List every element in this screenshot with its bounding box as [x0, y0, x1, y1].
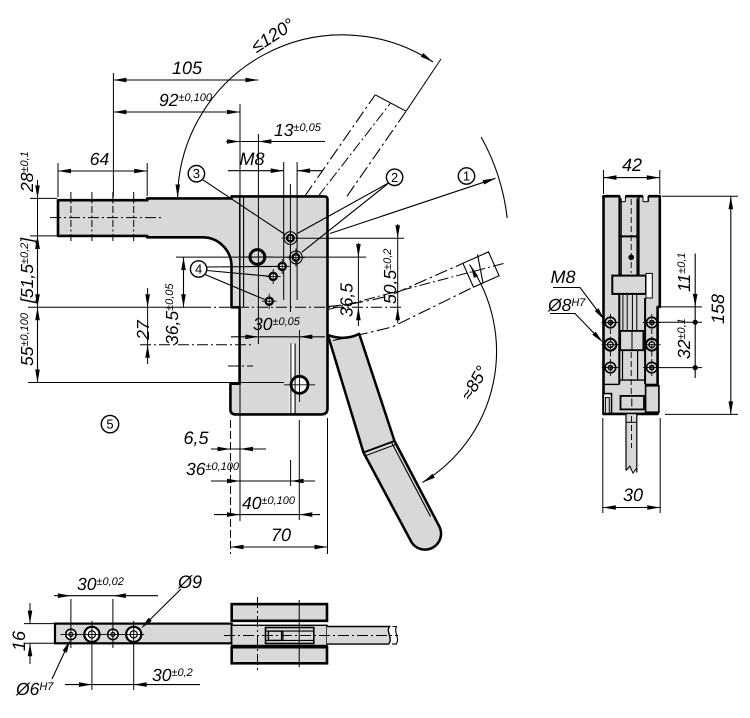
dimension 30 +-0,05: [231, 336, 325, 338]
svg-text:3: 3: [193, 166, 200, 181]
side view top notches (open slots): [620, 193, 626, 201]
bottom view bottom flange: [232, 647, 327, 663]
ext arm bottom y=235.9: [30, 235, 57, 237]
right wall notch at nut: [646, 273, 652, 298]
ext below block for 40: [298, 420, 300, 520]
item circle 3: [188, 166, 204, 182]
bottom view slot pocket: [266, 628, 314, 644]
svg-text:64: 64: [90, 149, 110, 169]
dimension 28 +-0,1 (left, vertical): [37, 180, 39, 254]
dimension 92 +-0,100: [113, 111, 240, 113]
swing radius arc (upper mount): [481, 137, 507, 218]
clamping lever (solid position, grey): [328, 334, 441, 550]
side hole axis y=366: [228, 365, 253, 367]
dimension 11 +-0,1: [661, 306, 702, 308]
swing angle arc 120deg: [178, 35, 433, 198]
pin break squiggle: [626, 466, 637, 473]
side hole axis y=344.7: [140, 344, 253, 346]
item circle 5: [101, 415, 118, 432]
svg-text:M8: M8: [239, 149, 264, 169]
bottom-left foot notch: [603, 394, 611, 414]
arm hole axis x=91.9: [91, 192, 93, 244]
dimension 36 +-0,100: [211, 480, 315, 482]
lever grip inner highlight line: [392, 443, 431, 517]
locating hole B: [270, 273, 277, 280]
svg-text:M8: M8: [550, 267, 575, 287]
svg-text:1: 1: [463, 169, 470, 184]
bottom view lever bar right extension with break: [327, 627, 390, 645]
strip holes H1-H4: [66, 629, 76, 639]
ext line y=382.3 (55 bottom / bottom hole center): [28, 382, 284, 384]
dimension 55 +-0,100 vertical: [37, 307, 39, 382]
counterbore hole (big circle): [250, 250, 265, 265]
arm hole axis x=70.9: [70, 192, 72, 244]
svg-text:30: 30: [623, 485, 643, 505]
ext below block for 36: [290, 460, 292, 486]
bottom pivot pin hole: [291, 376, 308, 393]
dimension 64: [57, 163, 59, 197]
dimension 36,5 (right) vertical: [357, 243, 359, 326]
dimension 105: [112, 73, 114, 197]
sleeve block: [620, 331, 643, 350]
item circle 1: [458, 168, 474, 184]
axis line big hole x=258.4: [257, 134, 259, 344]
hole axis ext verticals: [70, 599, 72, 648]
svg-text:16: 16: [9, 630, 29, 651]
dimension 70: [231, 546, 328, 548]
ext arm top y=198.4: [30, 197, 57, 199]
extension/axis line x=240 (refs 92/13/6,5/36/40): [239, 104, 241, 197]
dimension 30 +-0,2: [65, 684, 200, 686]
item 4 leaders: [207, 265, 278, 268]
locating hole A: [279, 263, 286, 270]
nut block: [612, 276, 646, 294]
dimension M8: [228, 170, 284, 172]
svg-text:5: 5: [106, 417, 113, 432]
dimension 27 vertical: [147, 288, 149, 364]
dimension 36,5 +-0,05 vertical: [183, 257, 185, 307]
side view slider piece: [620, 199, 622, 237]
ext x=327.5 for 70: [327, 418, 329, 554]
rod below sleeve: [622, 350, 624, 380]
item circle 4: [190, 261, 206, 277]
svg-text:36,5: 36,5: [337, 283, 357, 317]
dimension 13 +-0,05: [226, 141, 325, 143]
block slot edge line 2: [243, 197, 245, 306]
clamping range arc ~85deg: [423, 265, 497, 483]
lever grip joint lines: [364, 441, 395, 453]
bottom view drilled strip: [55, 624, 232, 644]
bottom view lever bar through flanges: [232, 625, 327, 645]
M8 tangent line right: [296, 162, 298, 300]
svg-text:42: 42: [622, 155, 642, 175]
spindle center dashed + dot: [630, 199, 632, 273]
side view mount holes: [605, 317, 616, 328]
bottom-right foot pad: [646, 386, 659, 412]
dimension 50,5 +-0,2 vertical: [397, 224, 399, 323]
ext dashed x=230.4 (6,5 / 70): [230, 420, 232, 554]
dimension 30 +-0,02: [54, 595, 158, 597]
M8 tangent line left: [283, 162, 285, 300]
side hole column center lines: [609, 314, 611, 376]
thread lines below nut: [622, 294, 624, 331]
axis upper M8 hole: [289, 184, 291, 312]
svg-text:158: 158: [708, 294, 728, 324]
phantom lever position 2 (released, dash-dot): [328, 263, 463, 306]
dimension 6,5: [211, 448, 266, 450]
dimension 16 vertical: [24, 623, 54, 625]
bottom nut: [621, 396, 645, 410]
arm hole axis x=133.7: [133, 192, 135, 244]
block slot edge line: [239, 197, 241, 306]
dimension 40 +-0,100: [214, 514, 320, 516]
svg-text:70: 70: [271, 525, 291, 545]
item 1 leader: [330, 178, 496, 233]
bottom view top flange: [232, 604, 327, 621]
side view channel walls: [618, 196, 620, 275]
center line y=238.3 (upper M8) to 50,5 dim: [296, 237, 404, 239]
svg-text:6,5: 6,5: [183, 428, 209, 448]
item 2 leader (to both M8 holes): [297, 183, 390, 234]
clamp pin below body: [626, 414, 637, 470]
arm hole axis x=112.9: [112, 192, 114, 244]
pivot line y=307.3: [28, 306, 200, 308]
side view body: [604, 196, 660, 414]
crosshair big hole: [242, 256, 273, 258]
svg-text:105: 105: [172, 58, 203, 78]
phantom lever position 1 (mounted upper hole, dash-dot): [305, 95, 376, 197]
phantom 1 end cap: [375, 95, 406, 111]
svg-text:27: 27: [133, 319, 153, 341]
locating hole C: [266, 298, 273, 305]
slot white strip: [289, 344, 294, 413]
dimension 32 +-0,1: [657, 367, 702, 369]
dimension [51,5 +-0,2] vertical: [37, 236, 39, 307]
lower M8 tapped hole: [290, 251, 303, 264]
arm horizontal center line: [50, 217, 162, 219]
slot edge pair in lower block: [290, 344, 292, 414]
svg-text:2: 2: [391, 170, 398, 185]
phantom 2 end cap: [463, 252, 499, 287]
angle extension line beyond phantom 1: [406, 59, 441, 111]
clamp body outline: [58, 196, 328, 414]
svg-text:4: 4: [195, 262, 202, 277]
bottom view axes: [224, 635, 398, 637]
dimension 30 (side bottom): [602, 418, 604, 513]
dimension 158: [662, 195, 738, 197]
item circle 2: [386, 169, 402, 185]
item 3 leader: [203, 180, 285, 235]
upper M8 tapped hole (2/3): [284, 232, 297, 245]
dimension 42: [603, 170, 605, 194]
center line y=257.1 (big hole row): [176, 256, 366, 258]
side bottom transition line: [604, 383, 620, 385]
